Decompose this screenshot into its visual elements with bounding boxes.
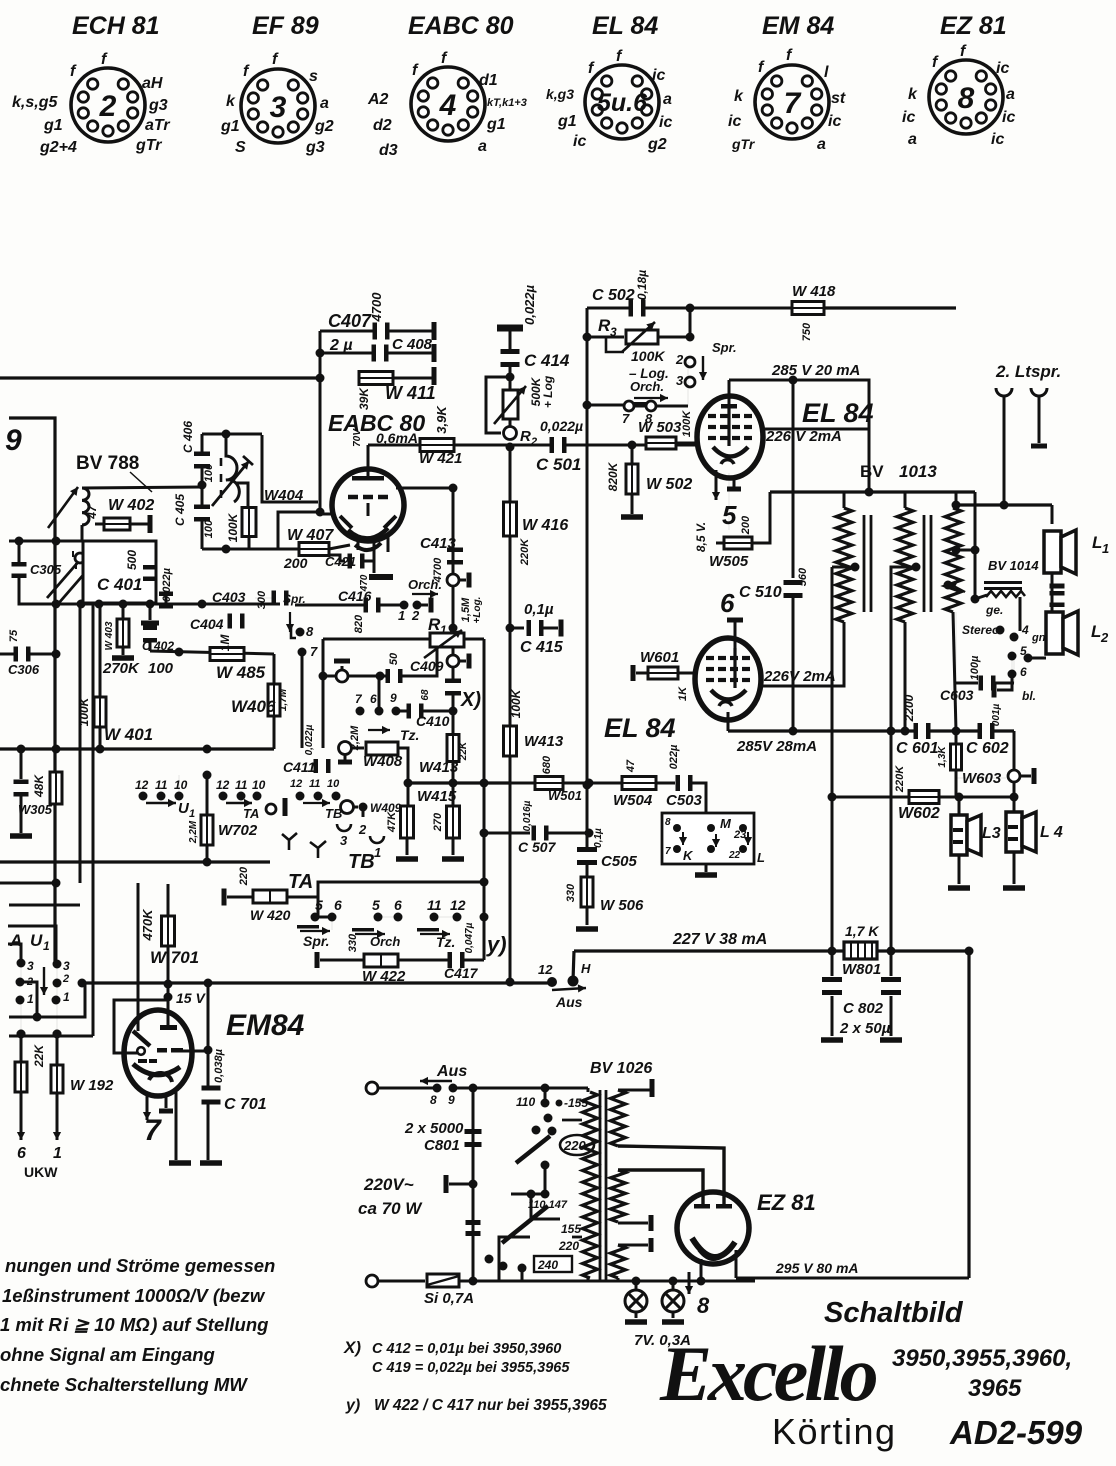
svg-text:Tz.: Tz. — [400, 727, 419, 743]
note y W422 — [345, 1397, 607, 1414]
winding BV1013 primary 1 — [836, 492, 852, 624]
capacitor C505 — [577, 828, 638, 877]
wire transformer top y492 — [770, 488, 975, 497]
svg-text:100K: 100K — [681, 410, 693, 437]
svg-text:6: 6 — [370, 692, 377, 706]
capacitor C802b — [880, 951, 902, 1043]
wire bus y797 W602 — [832, 793, 1019, 802]
svg-text:4700: 4700 — [369, 292, 384, 323]
winding tap 2 — [891, 563, 921, 952]
logo Excello — [659, 1330, 877, 1417]
svg-text:C305: C305 — [30, 562, 62, 577]
capacitor C407 — [320, 292, 437, 340]
svg-text:X): X) — [460, 689, 481, 711]
svg-text:C 502: C 502 — [592, 287, 635, 304]
svg-text:12: 12 — [538, 962, 553, 977]
svg-text:C411: C411 — [283, 759, 316, 775]
svg-text:47: 47 — [625, 759, 637, 773]
svg-text:W 506: W 506 — [600, 897, 644, 914]
svg-text:23: 23 — [733, 829, 746, 841]
terminal hooks 2.Ltspr — [996, 388, 1047, 505]
svg-text:Schaltbild: Schaltbild — [824, 1297, 964, 1329]
label EABC 80 — [328, 410, 425, 436]
label 2. Ltspr. — [995, 362, 1061, 381]
svg-text:2: 2 — [62, 973, 69, 985]
capacitor C410 100 — [407, 689, 458, 729]
resistor 48K W305 left — [18, 772, 62, 817]
svg-text:g1: g1 — [43, 117, 63, 134]
label 226 V 2mA no1 — [765, 428, 842, 445]
svg-text:3,9K: 3,9K — [434, 405, 449, 434]
winding tap 1 — [832, 563, 860, 572]
wire bus 227V y951 — [574, 947, 974, 956]
wire bus y984 long — [0, 1016, 1, 1018]
svg-text:Aus: Aus — [436, 1063, 467, 1080]
svg-text:1,7 K: 1,7 K — [845, 923, 879, 939]
capacitor C801 2x5000 — [404, 1120, 482, 1154]
svg-text:330: 330 — [347, 933, 359, 952]
svg-text:M: M — [720, 816, 732, 831]
svg-text:W504: W504 — [613, 792, 653, 809]
lamp 2 — [662, 1281, 684, 1325]
note italic line3 — [0, 1314, 268, 1335]
svg-text:7: 7 — [665, 846, 671, 857]
contacts 7 6 9 C410 — [355, 676, 407, 716]
svg-text:220: 220 — [558, 1239, 579, 1253]
svg-text:3: 3 — [27, 959, 34, 973]
svg-text:9: 9 — [448, 1093, 455, 1107]
svg-text:gTr: gTr — [135, 137, 162, 154]
label BV1014 — [988, 558, 1039, 573]
label Spr left — [283, 592, 306, 632]
svg-text:H: H — [581, 961, 591, 976]
svg-text:001µ: 001µ — [991, 704, 1002, 727]
svg-text:12: 12 — [135, 778, 149, 792]
svg-text:S: S — [235, 139, 246, 156]
svg-text:50: 50 — [388, 652, 400, 665]
svg-text:W 421: W 421 — [419, 450, 462, 467]
resistor W415 270 — [417, 783, 464, 862]
speaker L4 — [1003, 797, 1063, 891]
svg-text:g2: g2 — [314, 118, 334, 135]
wire mains to transformer — [453, 1084, 588, 1093]
svg-text:ge.: ge. — [985, 603, 1003, 617]
svg-text:Tz.: Tz. — [436, 934, 455, 950]
wire bus y783 — [404, 779, 512, 788]
switch W603 — [956, 731, 1037, 797]
capacitor C416 820 — [295, 588, 400, 633]
wire x57 contacts down — [21, 964, 57, 1034]
potentiometer R3 100K -Log — [587, 308, 695, 352]
wire y505 to L1 — [956, 501, 1052, 525]
svg-text:0,18µ: 0,18µ — [635, 270, 649, 300]
svg-text:285 V 20 mA: 285 V 20 mA — [771, 362, 860, 379]
svg-text:10: 10 — [174, 778, 188, 792]
svg-text:a: a — [478, 138, 487, 155]
switch U1 contacts 12 11 10 — [135, 778, 195, 820]
capacitor X 0,01µ — [445, 667, 481, 711]
note X C419 — [372, 1360, 570, 1376]
wire x453 down — [452, 488, 455, 633]
capacitor C601 2200 — [896, 694, 939, 757]
svg-text:2: 2 — [675, 352, 684, 367]
wire junction x56 y541 — [9, 537, 128, 609]
svg-text:R: R — [520, 428, 531, 445]
resistor W406 1,7M vertical — [231, 654, 289, 749]
svg-text:820K: 820K — [606, 461, 620, 491]
wire x484 down — [480, 639, 489, 960]
resistor W416 — [504, 447, 569, 627]
svg-text:330: 330 — [565, 883, 577, 902]
label Stereo — [962, 623, 1005, 637]
label 0,6mA 70V — [352, 428, 418, 447]
resistor W413 100K vertical — [504, 628, 564, 982]
svg-text:22: 22 — [728, 850, 741, 861]
svg-text:1 mit R i ≧ 10 MΩ ) auf Stellu: 1 mit R i ≧ 10 MΩ ) auf Stellung — [0, 1314, 268, 1335]
resistor W407 200 — [283, 527, 350, 571]
coil W402 with trimmer arrow — [48, 487, 202, 540]
node junction 320,378 — [316, 374, 325, 383]
svg-text:2 µ: 2 µ — [329, 337, 353, 354]
resistor W411 39K — [357, 367, 437, 410]
EL84-1 g2 wire — [763, 428, 869, 431]
capacitor C306 75pF — [0, 629, 61, 677]
fuse Si 0,7A — [424, 1274, 478, 1307]
resistor W485 1M — [210, 634, 266, 682]
svg-text:C 414: C 414 — [524, 351, 570, 370]
winding BV1013 secondary — [945, 492, 961, 731]
svg-text:Spr.: Spr. — [303, 933, 329, 949]
resistor W413 22K — [419, 711, 469, 783]
switch arrows Spr Orch Tz — [297, 925, 455, 950]
svg-text:9: 9 — [5, 424, 22, 457]
coil box C401 — [83, 541, 157, 603]
svg-text:EL 84: EL 84 — [802, 398, 874, 428]
svg-text:+ Log: + Log — [541, 375, 555, 408]
svg-text:470K: 470K — [140, 908, 155, 942]
svg-text:W 402: W 402 — [108, 497, 154, 514]
terminal mains top — [366, 1082, 437, 1094]
svg-text:EF 89: EF 89 — [252, 12, 319, 40]
svg-text:EABC 80: EABC 80 — [408, 12, 514, 40]
svg-text:11: 11 — [155, 778, 168, 792]
wire y984 bus to right — [20, 963, 552, 1017]
resistor 100K vertical — [226, 483, 256, 549]
svg-text:1: 1 — [398, 608, 405, 623]
svg-text:ic: ic — [728, 113, 741, 130]
voltage selector network — [485, 1088, 595, 1281]
wire bus y731 — [728, 727, 1014, 736]
svg-text:gn: gn — [1031, 632, 1046, 644]
resistor 1,3K vertical — [937, 731, 962, 797]
svg-text:3: 3 — [63, 959, 70, 973]
note X C412 — [343, 1338, 561, 1357]
svg-text:270: 270 — [432, 812, 444, 832]
resistor W402 box — [95, 515, 153, 533]
svg-text:10: 10 — [252, 778, 266, 792]
potentiometer R1 1,5M — [424, 597, 483, 658]
svg-text:70V: 70V — [352, 428, 363, 447]
svg-text:100K: 100K — [631, 348, 665, 364]
resistor W403 270K — [102, 604, 140, 677]
labels 6 1 UKW — [17, 1145, 62, 1180]
svg-text:9: 9 — [390, 691, 397, 705]
wire x969 down to 295V — [967, 951, 970, 1278]
winding BV1026 HT upper — [611, 1079, 725, 1196]
svg-text:2: 2 — [358, 822, 367, 837]
label Orch arrow — [408, 577, 442, 598]
svg-text:220: 220 — [238, 866, 250, 886]
label BV 1026 — [590, 1060, 652, 1077]
wire bus y883 — [0, 879, 61, 888]
wire R1 row — [323, 638, 484, 641]
svg-text:ECH 81: ECH 81 — [72, 12, 160, 40]
svg-text:Aus: Aus — [555, 994, 583, 1010]
svg-text:8: 8 — [697, 1293, 710, 1318]
label AD2-599 — [949, 1414, 1083, 1451]
svg-text:0,038µ: 0,038µ — [213, 1048, 225, 1083]
svg-text:aH: aH — [142, 75, 163, 92]
resistor W401 100K — [77, 604, 153, 749]
node label 9 — [5, 424, 22, 457]
EL84-2 internals — [706, 648, 750, 706]
svg-text:EZ 81: EZ 81 — [757, 1190, 816, 1215]
svg-text:1: 1 — [1102, 541, 1109, 556]
svg-text:0,022µ: 0,022µ — [304, 724, 315, 755]
wire y651 — [150, 648, 274, 657]
resistor W702 2,2M — [188, 815, 258, 845]
svg-text:ic: ic — [659, 114, 672, 131]
svg-text:1: 1 — [27, 992, 34, 1006]
svg-text:3: 3 — [676, 373, 684, 388]
note italic line4 — [0, 1344, 215, 1365]
svg-text:110,147: 110,147 — [528, 1199, 568, 1211]
svg-text:W415: W415 — [417, 788, 457, 805]
svg-text:C409: C409 — [410, 658, 444, 674]
caps between L1 L2 — [1050, 573, 1065, 612]
svg-text:560: 560 — [797, 567, 809, 586]
svg-text:W603: W603 — [962, 770, 1002, 787]
contacts U1 bank — [16, 959, 71, 1039]
tube EL84 no1 — [697, 396, 763, 478]
svg-text:4: 4 — [1021, 623, 1029, 637]
svg-text:a: a — [908, 131, 917, 148]
wire EL84-2 anode to transformer — [760, 624, 844, 686]
svg-text:EL 84: EL 84 — [604, 713, 676, 743]
svg-text:12: 12 — [450, 897, 466, 913]
svg-text:1: 1 — [189, 808, 195, 820]
label BV 788 — [76, 453, 152, 492]
svg-text:C 601: C 601 — [896, 740, 939, 757]
svg-text:8: 8 — [645, 411, 653, 426]
tube socket EZ81 — [902, 12, 1015, 148]
svg-text:C 412 = 0,01µ bei 3950,3960: C 412 = 0,01µ bei 3950,3960 — [372, 1341, 561, 1357]
svg-text:11: 11 — [427, 897, 442, 913]
label 2,2M rotated — [304, 724, 361, 755]
svg-text:a: a — [663, 91, 672, 108]
svg-text:U: U — [30, 931, 43, 950]
capacitor C501 0,022µ — [536, 418, 583, 474]
resistor W602 220K — [894, 765, 940, 822]
svg-text:11: 11 — [309, 778, 320, 790]
svg-text:C801: C801 — [424, 1137, 460, 1154]
svg-text:7: 7 — [310, 644, 318, 659]
tube EL84 no2 — [695, 638, 761, 720]
svg-text:g2: g2 — [647, 136, 667, 153]
terminal 220V — [444, 1175, 478, 1193]
svg-text:nungen und Ströme gemessen: nungen und Ströme gemessen — [5, 1255, 275, 1276]
fork TA symbols — [282, 833, 326, 858]
resistor W420 220 — [222, 866, 319, 923]
svg-text:aTr: aTr — [145, 117, 170, 134]
svg-text:155: 155 — [561, 1222, 581, 1236]
contacts 12 11 10 TB — [283, 778, 343, 821]
resistor W502 820K — [606, 445, 692, 520]
svg-text:C417: C417 — [444, 965, 479, 981]
note italic line1 — [5, 1255, 275, 1276]
svg-text:C 406: C 406 — [181, 421, 195, 453]
svg-text:200: 200 — [283, 555, 308, 571]
label 6 big — [720, 588, 743, 648]
svg-text:W 192: W 192 — [70, 1077, 114, 1094]
winding BV1026 heater — [611, 1238, 654, 1281]
label 3950 3955 3960 — [892, 1345, 1072, 1372]
svg-text:500: 500 — [125, 550, 139, 570]
tube socket ECH81 — [12, 12, 170, 156]
svg-text:W 422 / C 417 nur bei 3955,39: W 422 / C 417 nur bei 3955,3965 — [374, 1397, 607, 1414]
svg-text:y): y) — [486, 932, 507, 957]
svg-text:C 501: C 501 — [536, 455, 581, 474]
svg-text:L: L — [1092, 533, 1102, 552]
label TA big — [288, 871, 313, 893]
svg-text:W406: W406 — [231, 697, 276, 716]
wire y905 stub — [9, 904, 80, 907]
svg-text:2: 2 — [99, 90, 117, 123]
svg-text:4: 4 — [439, 89, 457, 122]
svg-text:Körting: Körting — [772, 1411, 897, 1452]
svg-text:C 510: C 510 — [739, 584, 782, 601]
svg-text:TB: TB — [348, 851, 375, 873]
contact box M23 — [662, 813, 765, 878]
svg-text:C603: C603 — [940, 687, 974, 703]
tuning gang arrows — [47, 551, 97, 604]
wire L2 bottom — [1011, 656, 1013, 674]
svg-text:110: 110 — [516, 1095, 535, 1109]
svg-text:L: L — [757, 850, 765, 865]
svg-text:6: 6 — [1020, 665, 1027, 679]
wire bus y862 — [0, 858, 270, 867]
svg-text:W 407: W 407 — [287, 527, 334, 544]
svg-text:ic: ic — [991, 131, 1004, 148]
label C802 2x50µ — [839, 1000, 891, 1037]
resistor W506 330 — [565, 877, 644, 932]
wire x832 down — [828, 567, 837, 951]
label 295 V 80mA — [775, 1260, 859, 1276]
svg-text:W 401: W 401 — [104, 725, 153, 744]
svg-text:Spr.: Spr. — [712, 340, 737, 355]
EZ81 cathode — [692, 1238, 735, 1259]
svg-text:1,3K: 1,3K — [937, 746, 948, 768]
wire left vertical x55 — [9, 418, 55, 963]
svg-text:0,022µ: 0,022µ — [161, 567, 173, 602]
svg-text:K: K — [683, 848, 694, 863]
capacitor C415 0,1µ — [506, 601, 564, 656]
capacitor C421 470 — [325, 554, 374, 593]
capacitor C409 50 — [386, 646, 444, 683]
resistor W504 47 — [589, 759, 656, 809]
svg-text:68: 68 — [420, 689, 431, 701]
svg-text:100: 100 — [203, 519, 215, 538]
wire y981 contact 12 — [506, 962, 558, 987]
svg-text:C407: C407 — [328, 311, 372, 331]
svg-text:W 701: W 701 — [150, 948, 199, 967]
svg-text:A2: A2 — [367, 91, 389, 108]
terminal mains bottom — [366, 1275, 425, 1287]
capacitor C503 022µ — [656, 744, 706, 813]
switch TB circle — [341, 801, 368, 814]
resistor W601 1K — [631, 649, 697, 701]
svg-text:2200: 2200 — [902, 694, 916, 722]
label Schaltbild — [824, 1297, 964, 1329]
EM84 deflection lead — [133, 883, 150, 1046]
label 3965 — [968, 1375, 1022, 1402]
svg-text:W409: W409 — [370, 801, 402, 815]
resistor W418 750 — [792, 283, 956, 341]
wire heater bottom — [588, 1277, 755, 1286]
note italic line2 — [2, 1285, 266, 1306]
EL84-1 internals — [708, 404, 752, 464]
svg-text:C404: C404 — [190, 616, 224, 632]
svg-text:5u.6: 5u.6 — [597, 89, 648, 117]
capacitor C507 0,016µ — [480, 800, 594, 855]
svg-text:2,2M: 2,2M — [188, 820, 199, 844]
node R2 junction — [506, 443, 515, 452]
label Koerting — [772, 1411, 897, 1452]
svg-text:a: a — [1006, 86, 1015, 103]
svg-text:11: 11 — [235, 778, 248, 792]
svg-text:0,1µ: 0,1µ — [524, 601, 554, 618]
svg-text:g3: g3 — [305, 139, 325, 156]
label Orch arrow 2 — [629, 379, 668, 406]
EM84 pins — [143, 1092, 191, 1166]
potentiometer 500K +Log — [486, 375, 555, 433]
wire y1036 — [9, 604, 93, 1039]
switch row 5 6 5 6 11 12 — [311, 897, 466, 930]
switch R2 — [504, 427, 538, 449]
svg-text:C503: C503 — [666, 792, 703, 809]
svg-text:100: 100 — [148, 660, 174, 677]
svg-text:22K: 22K — [32, 1044, 46, 1068]
label 220V ca70W — [358, 1175, 423, 1218]
svg-text:W404: W404 — [264, 487, 304, 504]
svg-text:W305: W305 — [18, 802, 53, 817]
winding BV1026 primary — [583, 1088, 598, 1281]
wire bus y749 — [0, 745, 274, 754]
svg-text:W702: W702 — [218, 822, 258, 839]
svg-text:8,5 V.: 8,5 V. — [694, 522, 708, 552]
svg-text:5: 5 — [372, 897, 380, 913]
svg-text:EZ 81: EZ 81 — [940, 12, 1007, 40]
speaker L3 — [948, 797, 1001, 891]
svg-text:d3: d3 — [379, 142, 398, 159]
svg-text:ic: ic — [652, 67, 665, 84]
svg-text:6: 6 — [334, 897, 342, 913]
winding BV1026 HT lower — [611, 1170, 704, 1231]
svg-text:C 408: C 408 — [392, 336, 433, 353]
svg-text:+Log.: +Log. — [472, 597, 483, 624]
svg-text:022µ: 022µ — [668, 744, 680, 769]
svg-text:220K: 220K — [519, 538, 531, 566]
